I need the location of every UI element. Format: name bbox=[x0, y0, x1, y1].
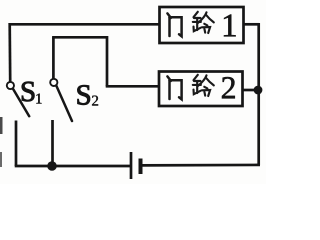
wire top (from left corner to bell1 box) bbox=[9, 23, 160, 26]
label doorbell1 text MEN bbox=[167, 13, 181, 36]
label doorbell1 text LING bbox=[193, 12, 214, 33]
label doorbell2 text MEN bbox=[167, 76, 181, 99]
wire inner right vertical bbox=[106, 36, 109, 86]
battery positive plate (long) bbox=[130, 152, 133, 179]
label doorbell2 text LING bbox=[193, 75, 214, 96]
wire left upper (down to S1 pivot) bbox=[8, 23, 11, 82]
label S1 bbox=[22, 82, 34, 102]
doorbell 1 box bbox=[160, 7, 244, 43]
wire right rail vertical bbox=[257, 23, 260, 165]
wire S2 up to inner loop bbox=[52, 37, 55, 79]
wire S1 lower terminal bbox=[15, 121, 18, 167]
switch S2 blade bbox=[56, 86, 72, 121]
node junction dot right rail bbox=[254, 86, 263, 95]
label doorbell2 digit 2 bbox=[222, 77, 235, 98]
label doorbell1 digit 1 bbox=[224, 15, 236, 37]
wire bottom right (battery to right corner) bbox=[141, 164, 261, 167]
switch S2 pivot bbox=[50, 79, 57, 86]
switch S1 pivot bbox=[7, 82, 14, 89]
wire S2 lower terminal bbox=[51, 120, 54, 166]
wire into bell2 left bbox=[106, 85, 159, 88]
switch S1 blade bbox=[13, 89, 29, 117]
wire bell2 right to node bbox=[243, 89, 259, 92]
wire bell1 right to right rail bbox=[244, 23, 260, 26]
scan artifact left edge bbox=[0, 117, 3, 134]
node junction dot bottom bbox=[47, 161, 57, 171]
doorbell 2 box bbox=[159, 72, 243, 107]
label S2 bbox=[78, 85, 90, 105]
battery negative plate (short thick) bbox=[139, 159, 143, 175]
wire inner top bbox=[52, 36, 107, 39]
wire bottom left (corner to battery) bbox=[15, 165, 131, 168]
